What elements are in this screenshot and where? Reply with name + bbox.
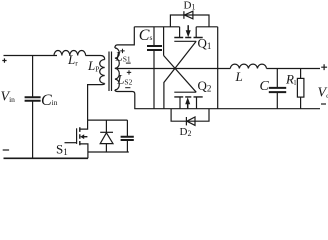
capacitor Cin — [25, 97, 41, 101]
wire left drop to cross — [163, 27, 165, 56]
svg-text:D1: D1 — [184, 0, 196, 12]
transformer primary winding Lp — [100, 60, 105, 84]
wire cross diagonal B — [164, 41, 196, 108]
wire top rail left segment — [134, 26, 179, 28]
inductor Lr — [54, 51, 86, 56]
wire Lr to transformer primary — [86, 56, 105, 60]
wire Cs top lead — [153, 27, 155, 45]
transformer secondary winding Ls1 — [115, 48, 119, 68]
diode D1 — [170, 11, 209, 27]
node + mark above Ls2 — [127, 70, 131, 74]
resistor RL — [297, 78, 304, 97]
wire bottom-left rail — [4, 157, 89, 159]
diode D2 — [171, 109, 209, 126]
wire S1 node line — [88, 119, 128, 121]
inductor L — [230, 64, 266, 68]
wire mid rail after L — [267, 68, 321, 70]
svg-text:C: C — [260, 79, 270, 94]
wire right rail — [217, 27, 219, 109]
wire snubber bottom rail — [88, 151, 129, 153]
node + output positive terminal mark — [321, 64, 327, 70]
wire bottom output rail — [134, 108, 320, 110]
node - mark below Ls1 — [126, 62, 131, 64]
transistor Q2 — [174, 92, 202, 109]
wire primary bottom lead — [88, 84, 105, 121]
wire mid output rail — [115, 68, 230, 70]
svg-text:L: L — [235, 69, 243, 84]
transistor S1 — [65, 120, 88, 158]
wire Cs bottom lead — [153, 51, 155, 109]
transformer secondary winding Ls2 — [115, 68, 119, 90]
node - mark below Ls2 — [125, 87, 130, 89]
wire RL bottom lead — [300, 97, 302, 109]
node + mark above Ls1 — [120, 49, 125, 53]
capacitor Cs — [147, 46, 162, 50]
node - output negative terminal mark — [321, 103, 326, 105]
node - input negative terminal mark — [3, 149, 9, 151]
wire secondary top lead — [115, 27, 134, 48]
diode S1 body — [100, 120, 113, 152]
wire top rail right segment — [196, 26, 218, 28]
capacitor C — [269, 88, 286, 92]
node + input positive terminal mark — [2, 58, 6, 62]
wire RL top lead — [300, 69, 302, 79]
transistor Q1 — [174, 25, 202, 41]
wire secondary bottom lead — [115, 90, 135, 109]
transformer core — [109, 52, 112, 92]
wire Cin top lead — [32, 56, 34, 97]
wire C output bottom lead — [276, 93, 278, 109]
wire cross diagonal A — [164, 56, 197, 93]
wire C output top lead — [276, 69, 278, 88]
capacitor S1 snubber — [121, 120, 134, 152]
wire top-left input rail — [4, 55, 58, 57]
wire Cin bottom lead — [32, 101, 34, 158]
